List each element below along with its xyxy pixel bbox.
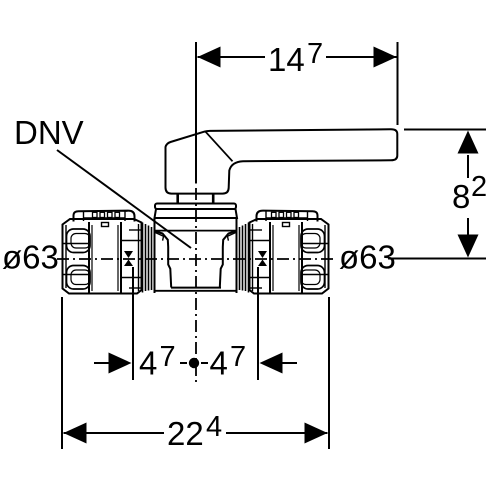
- dimension 14.7 top: dimension line: [198, 42, 398, 125]
- dimension 4.7 left arrow: [94, 353, 132, 374]
- right coupling grip cutouts: [301, 229, 325, 289]
- bonnet band: [155, 209, 238, 218]
- left union nut rings: [143, 223, 152, 293]
- center point mark: [180, 358, 208, 368]
- dimension 4.7 right arrow: [260, 353, 298, 374]
- dimension 4.7+4.7: left extension line: [132, 267, 134, 380]
- body right shoulder: [220, 231, 237, 288]
- stem legs: [176, 194, 179, 204]
- body left shoulder: [155, 231, 172, 288]
- left coupling clamp band: [89, 222, 121, 293]
- right coupling clamp cap: [257, 211, 318, 222]
- horizontal pipe centerline: [57, 258, 337, 260]
- right cap ticks: [272, 212, 299, 217]
- svg-text:4: 4: [206, 411, 222, 443]
- svg-text:4: 4: [210, 345, 228, 382]
- left coupling grip cutouts: [67, 229, 91, 289]
- handle lever: [166, 129, 398, 193]
- right union nut rings: [240, 223, 249, 293]
- left coupling bore lines: [63, 230, 141, 288]
- right fusion indicator mark: [258, 251, 267, 266]
- svg-text:14: 14: [268, 41, 305, 78]
- svg-text:7: 7: [160, 341, 176, 373]
- dimension 22.4: left extension line: [61, 297, 63, 449]
- stem flange: [155, 204, 236, 210]
- svg-text:8: 8: [452, 178, 470, 215]
- valve center body: [155, 218, 237, 293]
- left coupling clamp cap: [74, 211, 135, 222]
- svg-text:4: 4: [139, 345, 157, 382]
- vertical stem centerline (dash-dot): [195, 188, 197, 382]
- vertical stem axis extension line (solid): [195, 42, 197, 184]
- left coupling inner edge lines: [66, 224, 139, 291]
- right coupling clamp band: [270, 222, 302, 293]
- svg-text:ø63: ø63: [2, 239, 59, 276]
- svg-text:DNV: DNV: [14, 114, 84, 151]
- right coupling bore lines: [250, 230, 328, 288]
- svg-text:7: 7: [230, 341, 246, 373]
- left cap ticks: [93, 212, 120, 217]
- dimension 22.4: right extension line: [328, 297, 330, 449]
- svg-text:22: 22: [167, 415, 204, 452]
- svg-text:2: 2: [471, 171, 487, 203]
- dimension 8.2 right: dimension line: [388, 130, 486, 259]
- right coupling inner edge lines: [253, 224, 326, 291]
- left coupling outer body: [63, 219, 142, 294]
- handle edge line: [206, 132, 233, 162]
- DNV leader line: [57, 150, 191, 248]
- dimension 4.7+4.7: right extension line: [257, 267, 259, 380]
- right coupling outer body: [250, 219, 329, 294]
- left fusion indicator mark: [124, 251, 133, 266]
- svg-text:7: 7: [307, 38, 323, 70]
- svg-text:ø63: ø63: [339, 239, 396, 276]
- dimension 22.4 line and arrows: [64, 423, 328, 444]
